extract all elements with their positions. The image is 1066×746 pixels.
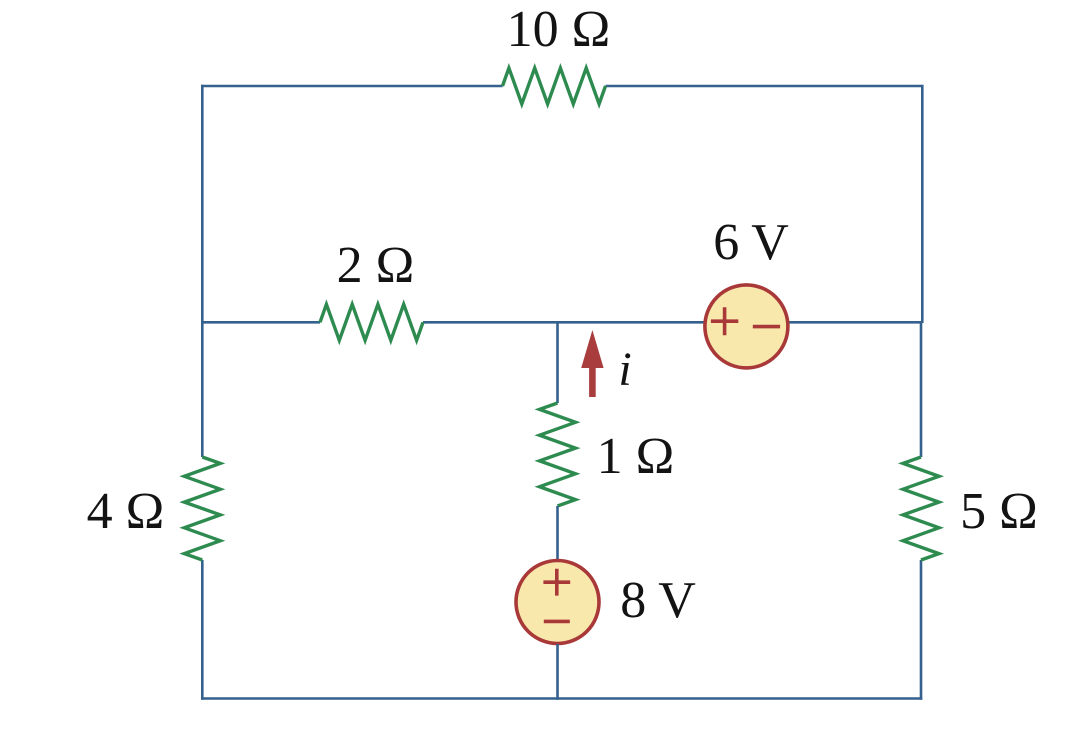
resistor R5 5 ohm <box>903 457 939 560</box>
voltage source V6 6V circle <box>705 285 788 368</box>
svg-text:2 Ω: 2 Ω <box>337 237 415 294</box>
bottom wire <box>201 697 922 700</box>
right wire mid segment <box>920 321 923 457</box>
right wire lower segment <box>920 560 923 700</box>
V8 minus sign <box>544 620 570 624</box>
svg-text:6 V: 6 V <box>713 214 789 271</box>
svg-text:4 Ω: 4 Ω <box>87 483 165 540</box>
svg-text:5 Ω: 5 Ω <box>960 483 1038 540</box>
svg-text:8 V: 8 V <box>620 572 696 629</box>
top wire left segment <box>201 85 503 88</box>
middle vertical wire upper segment <box>556 321 559 403</box>
svg-text:i: i <box>618 343 631 396</box>
current arrow head <box>581 330 603 368</box>
left wire lower segment <box>201 560 204 700</box>
current arrow shaft <box>589 366 596 397</box>
left wire <box>201 85 204 457</box>
svg-text:1 Ω: 1 Ω <box>597 428 675 485</box>
middle wire center segment <box>423 321 705 324</box>
right wire upper segment <box>921 85 924 323</box>
top wire right segment <box>606 85 923 88</box>
resistor R2 2 ohm <box>320 304 423 340</box>
middle vertical wire between R1 and V8 <box>556 506 559 560</box>
middle wire right segment <box>788 321 922 324</box>
V8 plus sign <box>543 569 570 596</box>
V6 plus sign <box>711 307 738 335</box>
V6 minus sign <box>753 325 780 329</box>
resistor R1 1 ohm <box>540 403 576 506</box>
svg-text:10 Ω: 10 Ω <box>507 1 611 58</box>
resistor R10 10 ohm <box>503 68 606 104</box>
voltage source V8 8V circle <box>516 561 599 644</box>
middle vertical wire lower segment <box>556 644 559 700</box>
resistor R4 4 ohm <box>184 457 220 560</box>
middle wire left segment <box>202 321 320 324</box>
